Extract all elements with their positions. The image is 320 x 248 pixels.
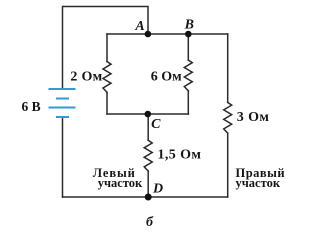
- wire: inner bottom bus through node C: [107, 113, 188, 115]
- svg-text:б: б: [146, 215, 154, 230]
- node D (junction dot): [145, 194, 152, 201]
- node A (junction dot): [145, 31, 152, 38]
- svg-text:B: B: [184, 18, 194, 33]
- node B (junction dot): [185, 31, 192, 38]
- wire: battery + terminal up, across top, down to node A: [63, 7, 149, 90]
- svg-text:6 Ом: 6 Ом: [151, 70, 182, 85]
- resistor 6 Ом zigzag: [184, 60, 192, 91]
- svg-text:1,5 Ом: 1,5 Ом: [158, 148, 202, 163]
- svg-text:A: A: [134, 19, 144, 34]
- wire: 2 Ом upper lead: [106, 34, 108, 62]
- svg-text:3 Ом: 3 Ом: [237, 110, 270, 125]
- wire: 2 Ом lower lead: [106, 92, 108, 114]
- wire: 6 Ом lower lead: [187, 91, 189, 114]
- wire: 6 Ом upper lead: [187, 34, 189, 60]
- svg-text:участок: участок: [98, 176, 143, 190]
- svg-text:участок: участок: [236, 176, 281, 190]
- wire: battery - terminal down to bottom bus: [62, 117, 64, 197]
- node C (junction dot): [145, 111, 152, 118]
- resistor 3 Ом zigzag: [224, 102, 232, 133]
- wire: right branch from corner down to 3 Ом: [227, 34, 229, 102]
- resistor 2 Ом zigzag: [103, 62, 111, 93]
- wire: right branch 3 Ом to bottom-right corner: [227, 133, 229, 197]
- svg-text:2 Ом: 2 Ом: [70, 70, 102, 85]
- wire: bottom bus through node D: [63, 196, 228, 198]
- svg-text:6 В: 6 В: [22, 99, 41, 114]
- svg-text:C: C: [151, 117, 161, 132]
- resistor 1,5 Ом zigzag: [144, 140, 152, 171]
- wire: node C down to 1,5 Ом: [147, 114, 149, 140]
- battery GB1 (6 В), two cells, blue plates: [49, 89, 76, 117]
- wire: 1,5 Ом down to node D: [147, 171, 149, 197]
- wire: top bus from left corner through A and B to right corner: [107, 33, 228, 35]
- svg-text:D: D: [152, 181, 163, 196]
